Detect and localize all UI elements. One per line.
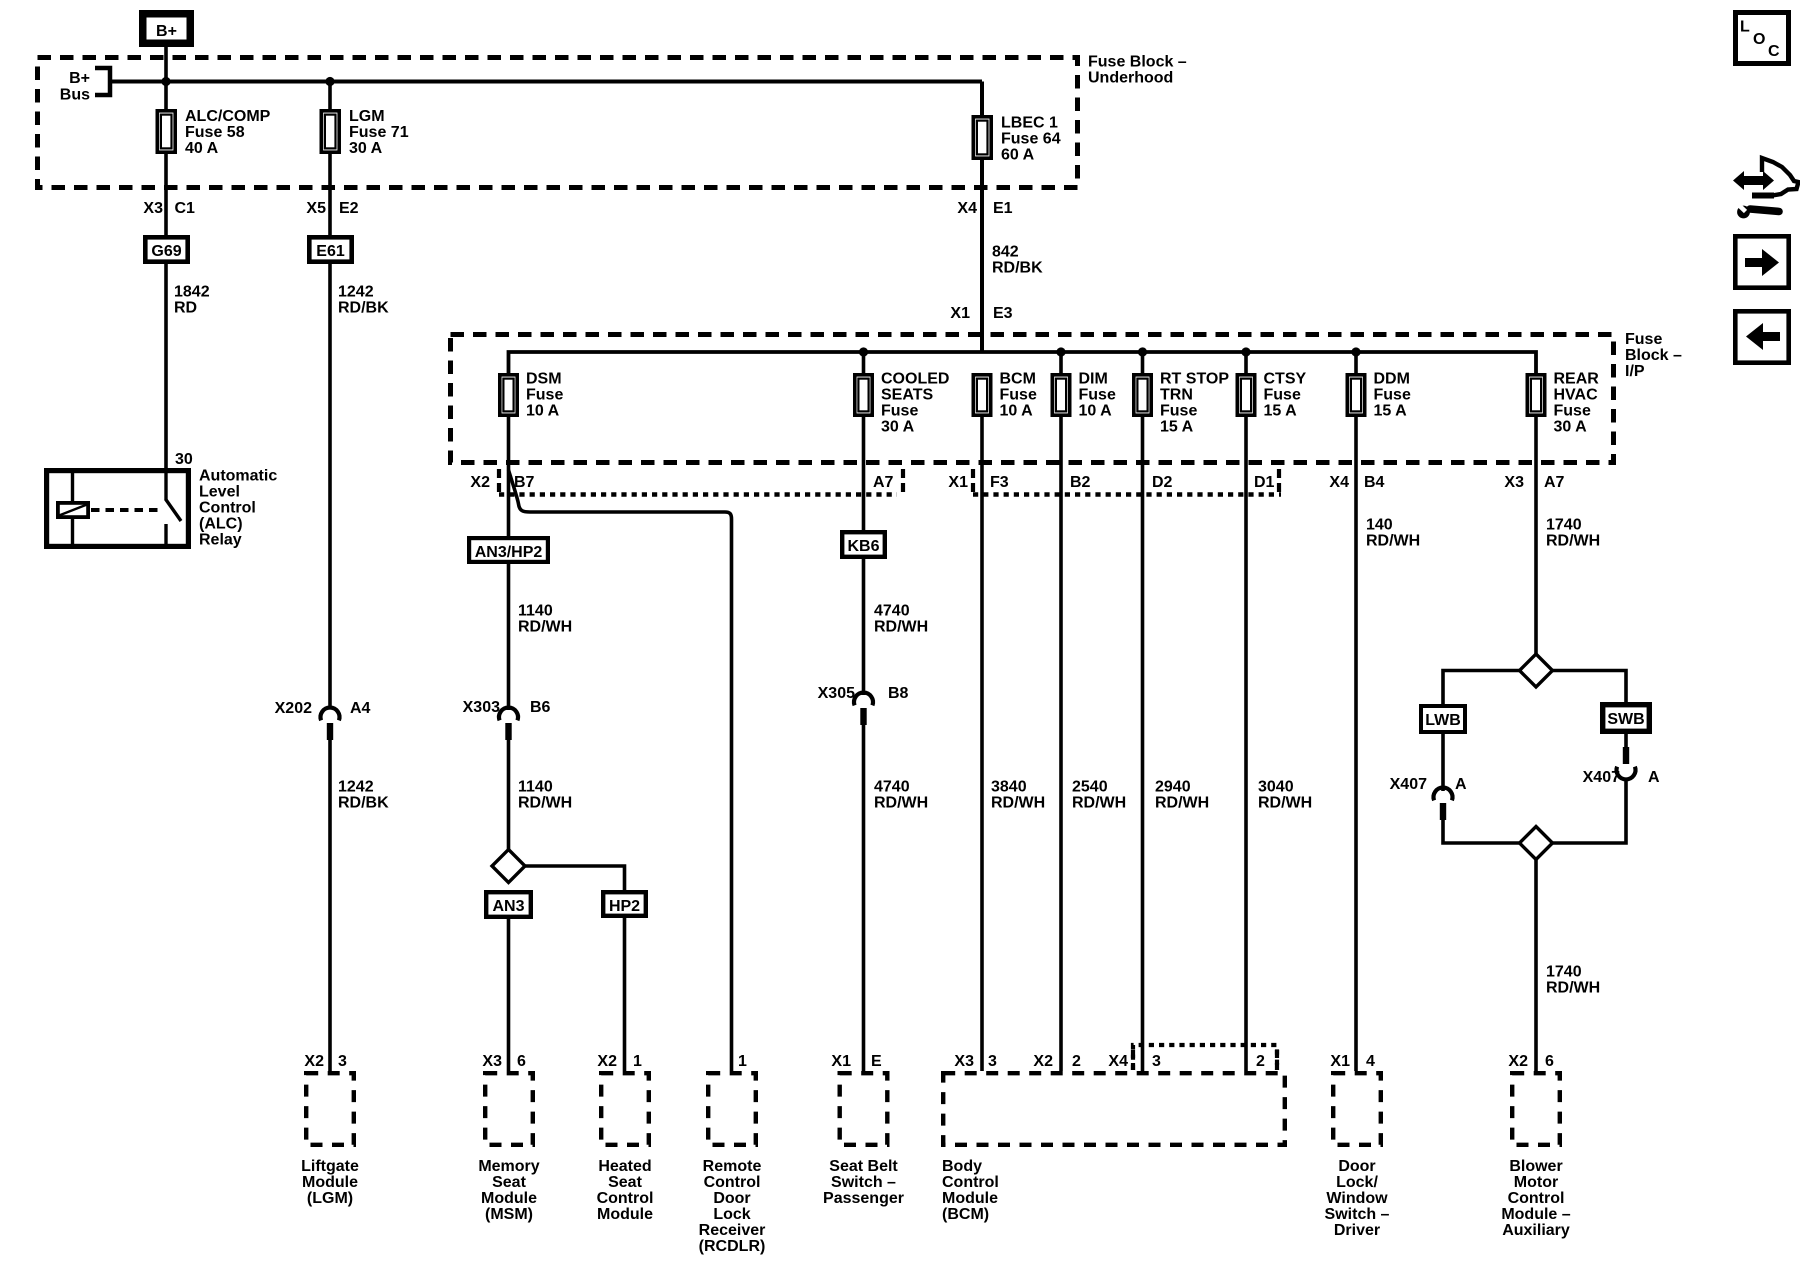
svg-text:40 A: 40 A [185, 140, 219, 157]
fuse REAR HVAC 30A [1527, 371, 1599, 436]
svg-text:3040: 3040 [1258, 779, 1294, 796]
svg-text:Switch –: Switch – [831, 1174, 896, 1191]
svg-text:(LGM): (LGM) [307, 1190, 353, 1207]
svg-text:Fuse: Fuse [1079, 387, 1116, 404]
svg-text:4: 4 [1366, 1053, 1375, 1070]
wire 1740 RD/WH to Blower Motor Control Module [1536, 859, 1600, 1071]
svg-text:X2: X2 [1508, 1053, 1528, 1070]
connector X202 A4 [275, 700, 371, 740]
svg-text:O: O [1753, 31, 1765, 48]
wire 4740 RD/WH to Seat Belt Switch [864, 725, 929, 1071]
svg-text:E3: E3 [993, 305, 1013, 322]
svg-text:3840: 3840 [991, 779, 1027, 796]
svg-text:Control: Control [942, 1174, 999, 1191]
svg-text:Memory: Memory [478, 1158, 539, 1175]
svg-text:15 A: 15 A [1160, 419, 1194, 436]
wire X407 to lower diamond (right) [1552, 778, 1626, 843]
wire B+ bus horizontal [110, 80, 982, 84]
connector X303 B6 [463, 699, 551, 740]
svg-text:A7: A7 [873, 474, 894, 491]
node B+ Bus label and bracket [60, 68, 110, 104]
svg-text:Receiver: Receiver [699, 1222, 766, 1239]
wire LBEC feed from bus corner [980, 82, 984, 117]
svg-text:X4: X4 [1108, 1053, 1128, 1070]
junction on bus at ALC/COMP fuse [161, 77, 170, 86]
svg-text:Module: Module [302, 1174, 358, 1191]
svg-text:X407: X407 [1390, 776, 1427, 793]
module Liftgate Module (LGM) [301, 1073, 359, 1207]
module Remote Control Door Lock Receiver (RCDLR) [699, 1073, 766, 1255]
svg-text:(BCM): (BCM) [942, 1206, 989, 1223]
svg-text:2: 2 [1072, 1053, 1081, 1070]
svg-text:Passenger: Passenger [823, 1190, 904, 1207]
svg-text:3: 3 [1152, 1053, 1161, 1070]
connector mark X4 B4 [1329, 474, 1384, 491]
icon vehicle data with arrows and wrench [1733, 158, 1799, 218]
connector X4 dotted band [1133, 1045, 1277, 1070]
connector mark D2 [1152, 474, 1173, 491]
svg-text:E61: E61 [316, 243, 345, 260]
svg-text:C: C [1768, 43, 1780, 60]
pin X5 E2 [306, 200, 358, 217]
svg-text:Fuse: Fuse [1374, 387, 1411, 404]
pin X2 6 (Blower) [1508, 1053, 1554, 1070]
svg-text:1140: 1140 [518, 603, 553, 620]
svg-text:Fuse: Fuse [881, 403, 918, 420]
junction on I/P bus at COOLED SEATS fuse [859, 347, 868, 356]
wire 3040 RD/WH CTSY fuse to BCM [1246, 417, 1312, 1071]
svg-text:B+: B+ [69, 70, 90, 87]
svg-text:CTSY: CTSY [1264, 371, 1307, 388]
pin X2 2 (BCM) [1033, 1053, 1081, 1070]
svg-text:HP2: HP2 [609, 898, 640, 915]
svg-text:Module: Module [481, 1190, 537, 1207]
svg-text:RD/WH: RD/WH [991, 795, 1045, 812]
wire COOLED SEATS fuse to KB6 [862, 417, 866, 531]
svg-text:X1: X1 [950, 305, 970, 322]
label Fuse Block - I/P [1625, 331, 1682, 380]
svg-text:X3: X3 [143, 200, 163, 217]
pin 1 (RCDLR) [738, 1053, 747, 1070]
svg-text:X202: X202 [275, 700, 312, 717]
svg-text:X3: X3 [954, 1053, 974, 1070]
splice diamond blower feed split [1520, 654, 1553, 687]
svg-text:Block –: Block – [1625, 347, 1682, 364]
svg-text:30: 30 [175, 451, 193, 468]
svg-text:842: 842 [992, 244, 1019, 261]
svg-text:Module: Module [597, 1206, 653, 1223]
battery feed B+ [143, 14, 191, 44]
fuse LGM Fuse 71 30A [321, 82, 408, 158]
svg-text:1242: 1242 [338, 779, 374, 796]
fuse DDM 15A [1347, 352, 1411, 420]
svg-text:Blower: Blower [1509, 1158, 1562, 1175]
svg-text:X3: X3 [1504, 474, 1524, 491]
wire 1740 RD/WH REAR HVAC fuse to diamond [1536, 417, 1600, 655]
wire 1842 RD to relay [166, 264, 210, 470]
svg-text:Lock/: Lock/ [1336, 1174, 1378, 1191]
wire branch to RCDLR (curve) [509, 470, 732, 1071]
pin X3 3 (BCM) [954, 1053, 997, 1070]
wire I/P bus [509, 352, 1537, 374]
svg-text:KB6: KB6 [847, 538, 879, 555]
splice E61 [309, 237, 351, 261]
svg-text:X1: X1 [1330, 1053, 1350, 1070]
svg-text:AN3/HP2: AN3/HP2 [475, 544, 543, 561]
svg-text:Heated: Heated [598, 1158, 651, 1175]
svg-text:140: 140 [1366, 517, 1393, 534]
svg-text:4740: 4740 [874, 779, 910, 796]
svg-text:RD/WH: RD/WH [874, 619, 928, 636]
wire 1242 RD/BK down to X202 [330, 264, 389, 709]
svg-text:Control: Control [199, 500, 256, 517]
wire 2940 RD/WH RT STOP TRN fuse to BCM [1143, 417, 1210, 1071]
junction on I/P bus at DDM fuse [1351, 347, 1360, 356]
svg-text:1740: 1740 [1546, 517, 1582, 534]
svg-text:X3: X3 [482, 1053, 502, 1070]
fuse RT STOP TRN 15A [1134, 352, 1230, 436]
svg-text:2940: 2940 [1155, 779, 1191, 796]
svg-text:X1: X1 [948, 474, 968, 491]
splice SWB [1603, 705, 1650, 732]
fuse ALC/COMP Fuse 58 40A [157, 82, 270, 158]
wire diamond to HP2 [525, 866, 625, 891]
svg-text:Body: Body [942, 1158, 982, 1175]
wire LBEC fuse output 842 RD/BK [982, 160, 1043, 352]
svg-text:DIM: DIM [1079, 371, 1108, 388]
svg-text:Seat: Seat [608, 1174, 642, 1191]
svg-text:RD/BK: RD/BK [338, 300, 389, 317]
relay K: Automatic Level Control (ALC) Relay [47, 451, 278, 549]
svg-text:A: A [1648, 769, 1660, 786]
svg-text:(MSM): (MSM) [485, 1206, 533, 1223]
svg-text:Fuse: Fuse [1160, 403, 1197, 420]
svg-text:REAR: REAR [1554, 371, 1600, 388]
fuse LBEC 1 Fuse 64 60A [973, 115, 1060, 164]
svg-text:Control: Control [1508, 1190, 1565, 1207]
svg-text:X4: X4 [957, 200, 977, 217]
splice pack AN3/HP2 [469, 538, 548, 562]
icon LOC box [1736, 13, 1789, 64]
wire diamond to LWB [1443, 671, 1520, 706]
svg-text:Door: Door [713, 1190, 750, 1207]
fuse DSM 10A [500, 371, 564, 420]
svg-text:Relay: Relay [199, 532, 242, 549]
svg-text:X2: X2 [597, 1053, 617, 1070]
svg-text:Control: Control [597, 1190, 654, 1207]
wire HP2 to Heated Seat Control Module [623, 918, 627, 1071]
splice KB6 [842, 532, 885, 557]
svg-text:Window: Window [1326, 1190, 1388, 1207]
svg-text:Underhood: Underhood [1088, 70, 1173, 87]
connector band dotted (X2/A7) [499, 492, 897, 496]
svg-text:SEATS: SEATS [881, 387, 933, 404]
svg-text:Fuse 58: Fuse 58 [185, 124, 245, 141]
connector X407 A (right) [1583, 747, 1660, 786]
svg-text:L: L [1740, 19, 1750, 36]
svg-text:DSM: DSM [526, 371, 562, 388]
label Fuse Block - Underhood [1088, 54, 1187, 87]
svg-text:Driver: Driver [1334, 1222, 1380, 1239]
svg-text:X2: X2 [304, 1053, 324, 1070]
svg-text:B6: B6 [530, 699, 551, 716]
wire ALC fuse to G69 [164, 154, 168, 235]
svg-text:1740: 1740 [1546, 964, 1582, 981]
junction on I/P bus at RT STOP TRN fuse [1138, 347, 1147, 356]
module Body Control Module (BCM) [942, 1073, 1285, 1223]
pin X4 3 (BCM) [1108, 1050, 1161, 1070]
fuse DIM 10A [1052, 352, 1116, 420]
pin X3 6 (MSM) [482, 1053, 526, 1070]
svg-text:60 A: 60 A [1001, 147, 1035, 164]
splice diamond AN3/HP2 split [492, 850, 525, 883]
svg-text:30 A: 30 A [1554, 419, 1588, 436]
module Blower Motor Control Module - Auxiliary [1501, 1073, 1570, 1239]
svg-text:6: 6 [1545, 1053, 1554, 1070]
svg-text:RD/WH: RD/WH [1072, 795, 1126, 812]
svg-text:2: 2 [1256, 1053, 1265, 1070]
svg-text:(ALC): (ALC) [199, 516, 243, 533]
wire diamond to SWB [1552, 671, 1626, 704]
icon forward arrow box [1735, 236, 1788, 287]
svg-text:HVAC: HVAC [1554, 387, 1599, 404]
svg-text:10 A: 10 A [1000, 403, 1034, 420]
pin X1 4 (Door Lock Switch) [1330, 1053, 1375, 1070]
fuse block underhood (dashed) [38, 58, 1078, 188]
svg-text:G69: G69 [151, 243, 181, 260]
connector mark A7 [873, 469, 903, 493]
fuse BCM 10A [973, 371, 1037, 420]
svg-text:E2: E2 [339, 200, 359, 217]
svg-text:RD/WH: RD/WH [1155, 795, 1209, 812]
svg-text:Fuse: Fuse [1554, 403, 1591, 420]
connector mark B2 [1070, 474, 1091, 491]
svg-text:X1: X1 [831, 1053, 851, 1070]
svg-text:F3: F3 [990, 474, 1009, 491]
svg-text:RD/WH: RD/WH [1546, 533, 1600, 550]
svg-text:A7: A7 [1544, 474, 1565, 491]
svg-text:Fuse: Fuse [1264, 387, 1301, 404]
svg-text:DDM: DDM [1374, 371, 1410, 388]
connector mark D1 [1254, 469, 1279, 493]
svg-text:I/P: I/P [1625, 363, 1645, 380]
svg-text:RD/WH: RD/WH [1258, 795, 1312, 812]
pin 2 (BCM X4) [1256, 1050, 1277, 1070]
wire LGM fuse to E61 [328, 154, 332, 235]
svg-text:Fuse Block –: Fuse Block – [1088, 54, 1187, 71]
wire DSM fuse output to AN3/HP2 [507, 417, 511, 537]
svg-text:RD/WH: RD/WH [1366, 533, 1420, 550]
pin X4 E1 [957, 200, 1012, 217]
svg-text:15 A: 15 A [1374, 403, 1408, 420]
wire X407 to lower diamond (left) [1443, 819, 1520, 843]
svg-text:30 A: 30 A [881, 419, 915, 436]
pin X1 E (Seat Belt Switch) [831, 1053, 882, 1070]
wire AN3 to Memory Seat Module [507, 919, 511, 1071]
svg-text:B4: B4 [1364, 474, 1385, 491]
svg-text:10 A: 10 A [526, 403, 560, 420]
junction on I/P bus at CTSY fuse [1241, 347, 1250, 356]
svg-text:Switch –: Switch – [1325, 1206, 1390, 1223]
splice diamond blower merge [1520, 827, 1553, 860]
wire SWB to X407 [1624, 734, 1628, 750]
fuse block I/P (dashed) [451, 335, 1614, 463]
svg-text:RT STOP: RT STOP [1160, 371, 1229, 388]
fuse CTSY 15A [1237, 352, 1306, 420]
wire 3840 RD/WH BCM fuse to BCM [982, 417, 1045, 1071]
splice HP2 [603, 892, 646, 916]
splice G69 [145, 237, 187, 261]
svg-text:SWB: SWB [1607, 711, 1644, 728]
wire 1242 RD/BK to Liftgate Module [330, 739, 389, 1071]
svg-text:Module –: Module – [1501, 1206, 1570, 1223]
svg-text:D2: D2 [1152, 474, 1173, 491]
svg-text:ALC/COMP: ALC/COMP [185, 108, 271, 125]
svg-text:B8: B8 [888, 685, 909, 702]
svg-text:Liftgate: Liftgate [301, 1158, 359, 1175]
svg-text:B+: B+ [156, 23, 177, 40]
wire B+ to bus [164, 47, 168, 82]
svg-text:1140: 1140 [518, 779, 553, 796]
svg-text:A4: A4 [350, 700, 371, 717]
svg-text:Seat Belt: Seat Belt [829, 1158, 898, 1175]
svg-text:4740: 4740 [874, 603, 910, 620]
svg-text:TRN: TRN [1160, 387, 1193, 404]
svg-text:X303: X303 [463, 699, 500, 716]
svg-text:X4: X4 [1329, 474, 1349, 491]
svg-text:X305: X305 [818, 685, 855, 702]
wire 1140 RD/WH to X303 [509, 564, 573, 710]
svg-text:1: 1 [738, 1053, 747, 1070]
svg-text:B7: B7 [514, 474, 535, 491]
svg-text:Fuse: Fuse [526, 387, 563, 404]
svg-text:Module: Module [942, 1190, 998, 1207]
svg-text:Door: Door [1338, 1158, 1375, 1175]
module Heated Seat Control Module [597, 1073, 654, 1223]
connector band dotted (X1/D1) [973, 492, 1281, 496]
svg-text:D1: D1 [1254, 474, 1275, 491]
splice AN3 [486, 892, 531, 917]
fuse COOLED SEATS 30A [855, 352, 950, 436]
svg-text:E: E [871, 1053, 882, 1070]
svg-text:RD: RD [174, 300, 197, 317]
svg-text:Fuse 64: Fuse 64 [1001, 131, 1061, 148]
svg-text:Control: Control [704, 1174, 761, 1191]
svg-text:B2: B2 [1070, 474, 1091, 491]
svg-text:LBEC 1: LBEC 1 [1001, 115, 1058, 132]
svg-text:RD/WH: RD/WH [874, 795, 928, 812]
svg-text:3: 3 [338, 1053, 347, 1070]
svg-text:Lock: Lock [713, 1206, 750, 1223]
connector mark X2 B7 [470, 469, 534, 493]
connector mark X1 F3 [948, 469, 1008, 493]
svg-text:Fuse: Fuse [1625, 331, 1662, 348]
svg-text:Remote: Remote [703, 1158, 762, 1175]
splice LWB [1421, 706, 1465, 732]
pin X1 E3 [950, 305, 1012, 322]
svg-text:C1: C1 [175, 200, 196, 217]
svg-text:X2: X2 [1033, 1053, 1053, 1070]
svg-text:RD/WH: RD/WH [518, 795, 572, 812]
svg-text:E1: E1 [993, 200, 1013, 217]
svg-text:Seat: Seat [492, 1174, 526, 1191]
svg-text:AN3: AN3 [492, 898, 524, 915]
svg-text:RD/WH: RD/WH [1546, 980, 1600, 997]
svg-text:30 A: 30 A [349, 140, 383, 157]
svg-text:Fuse 71: Fuse 71 [349, 124, 409, 141]
svg-text:A: A [1455, 776, 1467, 793]
svg-text:1842: 1842 [174, 284, 210, 301]
pin X2 1 (Heated Seat) [597, 1053, 642, 1070]
pin X3 C1 [143, 200, 195, 217]
connector X305 B8 [818, 685, 909, 725]
svg-text:RD/BK: RD/BK [338, 795, 389, 812]
svg-text:1242: 1242 [338, 284, 374, 301]
svg-text:10 A: 10 A [1079, 403, 1113, 420]
svg-text:(RCDLR): (RCDLR) [699, 1238, 766, 1255]
wire LWB to X407 [1441, 734, 1445, 791]
svg-text:6: 6 [517, 1053, 526, 1070]
svg-text:Bus: Bus [60, 87, 90, 104]
svg-text:RD/WH: RD/WH [518, 619, 572, 636]
wire 140 RD/WH DDM fuse to Door Lock/Window Switch [1356, 417, 1420, 1071]
wire 2540 RD/WH DIM fuse to BCM [1061, 417, 1126, 1071]
svg-text:2540: 2540 [1072, 779, 1108, 796]
module Door Lock/Window Switch - Driver [1325, 1073, 1390, 1239]
svg-text:X2: X2 [470, 474, 490, 491]
svg-text:LWB: LWB [1425, 712, 1461, 729]
svg-text:Level: Level [199, 484, 240, 501]
connector mark X3 A7 [1504, 474, 1564, 491]
junction on bus at LGM fuse [325, 77, 334, 86]
module Memory Seat Module (MSM) [478, 1073, 539, 1223]
svg-text:15 A: 15 A [1264, 403, 1298, 420]
junction on I/P bus at DIM fuse [1056, 347, 1065, 356]
svg-text:Motor: Motor [1514, 1174, 1558, 1191]
svg-text:X5: X5 [306, 200, 326, 217]
module Seat Belt Switch - Passenger [823, 1073, 904, 1207]
svg-text:3: 3 [988, 1053, 997, 1070]
svg-text:1: 1 [633, 1053, 642, 1070]
svg-text:Auxiliary: Auxiliary [1502, 1222, 1570, 1239]
connector X407 A (left) [1390, 776, 1467, 820]
icon back arrow box [1735, 311, 1788, 362]
pin X2 3 (Liftgate) [304, 1053, 347, 1070]
svg-text:Automatic: Automatic [199, 468, 277, 485]
wire 1140 RD/WH to diamond split [509, 739, 573, 851]
svg-text:RD/BK: RD/BK [992, 260, 1043, 277]
svg-text:LGM: LGM [349, 108, 385, 125]
svg-text:BCM: BCM [1000, 371, 1036, 388]
svg-text:Fuse: Fuse [1000, 387, 1037, 404]
svg-text:COOLED: COOLED [881, 371, 949, 388]
wire 4740 RD/WH to X305 [864, 559, 929, 695]
